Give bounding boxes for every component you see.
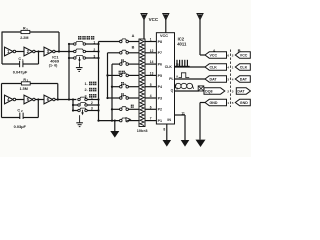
wire: VCC to IC2 — [165, 19, 167, 33]
wire: selector2 left bus — [72, 100, 74, 111]
wire: pin 5 to P4 — [145, 86, 156, 88]
svg-text:DAT: DAT — [210, 78, 218, 82]
svg-text:GND: GND — [240, 101, 248, 105]
wire: osc2 right feedback vertical — [57, 84, 59, 100]
svg-text:CLK: CLK — [240, 66, 248, 70]
svg-text:1: 1 — [150, 38, 152, 42]
switch S2b row 2 — [73, 104, 78, 106]
svg-text:6: 6 — [150, 105, 152, 109]
power VCC arrow 2 — [163, 14, 169, 20]
wire: pin 12 to P7 — [145, 52, 156, 54]
wire: C1 vertical to inv2 output — [38, 52, 40, 65]
switch S1a row 1 — [69, 43, 74, 45]
cable boundary dashed line — [229, 50, 231, 108]
capacitor C1 — [2, 63, 20, 65]
svg-text:2.: 2. — [85, 88, 88, 92]
svg-text:1: 1 — [91, 96, 93, 100]
label: tone glyph row3 — [121, 59, 124, 62]
svg-text:VCC: VCC — [210, 54, 218, 58]
op-amp U-inverter IC1b 2 — [24, 47, 33, 56]
op-amp U-inverter IC1c 3 — [44, 47, 53, 56]
switch S2c row 3 — [73, 110, 78, 112]
wire: pin 14 to P6 — [145, 63, 156, 65]
svg-text:CLK: CLK — [165, 65, 173, 69]
resistor R2 — [21, 82, 30, 85]
node: feedback junction osc2 — [57, 98, 59, 100]
svg-text:VCC: VCC — [149, 17, 159, 22]
svg-text:0.047μF: 0.047μF — [13, 69, 28, 74]
svg-text:P7: P7 — [158, 51, 162, 55]
resistor R1 — [21, 30, 30, 33]
wire: VCC down to flag A1 — [199, 19, 201, 55]
wire: PL to flag row3 — [175, 78, 206, 80]
op-amp U-inverter IC1a 1 — [5, 47, 14, 56]
svg-text:1.: 1. — [85, 82, 88, 86]
label: tone glyph row7 — [131, 105, 134, 108]
node: junction after inverter 2 — [37, 50, 39, 52]
switch K7 (program bit P2) — [112, 108, 120, 110]
node: junction after inverter 5 — [37, 98, 39, 100]
power VCC arrow 3 — [197, 14, 203, 20]
IC U2 body — [156, 33, 174, 124]
svg-text:P2: P2 — [158, 108, 162, 112]
svg-text:C: C — [18, 57, 21, 61]
wire: pin 4 to P3 — [145, 97, 156, 99]
svg-text:VCC: VCC — [160, 34, 168, 38]
wire: inv6 output to selector 2 — [55, 99, 76, 101]
wire: selector2 wiper to ground — [79, 115, 81, 122]
svg-text:P3: P3 — [158, 96, 162, 100]
op-amp U-inverter IC1d 4 — [5, 95, 14, 104]
wire: selector1 left bus — [68, 44, 70, 100]
svg-text:10k×8: 10k×8 — [137, 129, 148, 133]
wiper arrow of selector1 — [79, 57, 81, 60]
switch K1 (program bit P8) — [99, 41, 120, 43]
svg-text:2: 2 — [91, 101, 93, 105]
wire — [16, 51, 24, 53]
resistor network RN1 10k x8 — [139, 39, 145, 127]
wire: CLK output to flag row2 — [175, 66, 206, 68]
svg-text:DQ8: DQ8 — [205, 90, 212, 94]
svg-text:C: C — [17, 108, 20, 112]
wire: pin 6 to P2 — [145, 108, 156, 110]
node: feedback junction — [58, 50, 60, 52]
switch S1c row 3 — [69, 57, 74, 59]
wire: selector1 wiper to ground — [79, 62, 81, 67]
wire: osc1 right feedback vertical to inv3 output — [58, 32, 60, 52]
wire — [35, 51, 44, 53]
svg-text:2.2M: 2.2M — [20, 36, 28, 40]
switch K6 (program bit P3) — [108, 97, 120, 99]
wire: common bus A vertical — [98, 42, 100, 121]
wire — [16, 99, 24, 101]
svg-text:3: 3 — [91, 107, 93, 111]
label: tone glyph row6 — [121, 93, 124, 96]
ground: selector1 — [76, 67, 83, 69]
svg-text:7: 7 — [150, 117, 152, 121]
svg-text:IN: IN — [167, 118, 171, 122]
svg-text:14: 14 — [150, 60, 154, 64]
wire: pin 1 to P8 — [145, 41, 156, 43]
svg-text:GND: GND — [210, 101, 218, 105]
net flag B2 CLK — [235, 64, 250, 70]
svg-text:5: 5 — [150, 83, 152, 87]
svg-text:1: 1 — [93, 40, 95, 44]
net flag A2 CLK — [205, 64, 227, 70]
waveform icon: pulse burst — [175, 65, 190, 67]
wire: osc1 feedback top rail y=32 — [2, 31, 21, 33]
ground: selector2 — [76, 122, 83, 124]
label: tone glyph row5 — [121, 82, 124, 85]
net flag A4 DQ (right) — [204, 88, 225, 94]
wire: pin 7 to P1 — [145, 120, 156, 122]
svg-text:4: 4 — [150, 94, 152, 98]
switch S2a row 1 — [78, 98, 80, 100]
ground: output common — [196, 140, 206, 147]
buzzer/connector box with X — [198, 86, 204, 91]
svg-text:8: 8 — [163, 128, 165, 132]
net flag A1 VCC — [205, 52, 227, 58]
op-amp U-inverter IC1e 5 — [24, 95, 33, 104]
net flag B5 GND — [235, 99, 250, 105]
wire: osc1 left vertical input — [1, 32, 3, 65]
wire: IC2 VSS pin 8 to ground — [166, 124, 168, 140]
svg-text:P5: P5 — [158, 74, 162, 78]
svg-text:DAT: DAT — [240, 78, 248, 82]
wire: Q to buzzer box — [175, 90, 200, 92]
svg-text:VCC: VCC — [240, 54, 248, 58]
svg-text:Q: Q — [171, 89, 174, 93]
wire: IN pin to ground — [175, 114, 186, 116]
svg-text:P4: P4 — [158, 85, 162, 89]
svg-text:P1: P1 — [158, 119, 162, 123]
net flag B4 DAT (right) — [236, 88, 250, 94]
svg-text:P8: P8 — [158, 40, 162, 44]
waveform icon: modulated loops — [175, 83, 181, 88]
svg-text:PL: PL — [169, 77, 173, 81]
label: tone glyph row4 — [119, 71, 122, 74]
switch K8 (program bit P1) — [99, 120, 120, 122]
svg-text:13: 13 — [150, 72, 154, 76]
wiper arrow of selector2 — [82, 110, 84, 114]
ground: IN pin — [181, 140, 190, 147]
node: selector2 bus junction — [72, 98, 74, 100]
label: tone glyph row8 (arrow) — [126, 118, 130, 122]
svg-text:12: 12 — [150, 49, 154, 53]
wire: switch bus B2 vertical — [111, 64, 113, 121]
capacitor C2 — [2, 117, 20, 119]
svg-text:0.03μF: 0.03μF — [14, 124, 27, 129]
switch K3 (program bit P6) — [112, 63, 120, 65]
net flag A3 DAT — [205, 76, 227, 82]
wire: C2 vertical to inv5 output — [37, 100, 39, 118]
net flag B1 VCC — [235, 52, 250, 58]
svg-text:3: 3 — [93, 54, 95, 58]
wire: flag A5 to ground — [200, 102, 205, 104]
ground: switch column — [110, 131, 119, 138]
switch K2 (program bit P7) — [108, 52, 120, 54]
waveform icon: single pulse — [179, 73, 190, 78]
svg-text:2: 2 — [93, 48, 95, 52]
wire: osc2 feedback top rail y=83.5 — [2, 83, 22, 85]
wire: pin 13 to P5 — [145, 74, 156, 76]
wire: ground stem of switch column — [114, 121, 116, 131]
wire: osc2 left vertical — [1, 84, 3, 118]
label: sound-select switch caption — [78, 36, 81, 40]
switch K4 (program bit P5) — [108, 74, 120, 76]
svg-text:B: B — [132, 45, 135, 49]
wire — [35, 99, 44, 101]
svg-text:P6: P6 — [158, 63, 162, 67]
svg-text:A: A — [132, 34, 135, 38]
switch S1b row 2 — [74, 50, 76, 52]
switch K5 (program bit P4) — [112, 86, 120, 88]
wire: inv3 output to selector — [55, 51, 73, 53]
svg-text:(1- 6): (1- 6) — [49, 64, 58, 68]
node: selector bus junction — [68, 50, 70, 52]
svg-text:DAT: DAT — [237, 90, 245, 94]
svg-text:1.5M: 1.5M — [20, 87, 28, 91]
net flag A5 GND — [205, 99, 227, 105]
op-amp U-inverter IC1f 6 — [44, 95, 53, 104]
wire: switch bus B1 vertical — [107, 53, 109, 98]
net flag B3 DAT — [235, 76, 250, 82]
svg-text:4011: 4011 — [177, 42, 187, 47]
power VCC arrow 1 — [141, 14, 147, 20]
svg-text:CLK: CLK — [210, 66, 218, 70]
wire: VCC to resistor network — [143, 19, 145, 39]
ground: IC2 VSS — [163, 140, 172, 147]
